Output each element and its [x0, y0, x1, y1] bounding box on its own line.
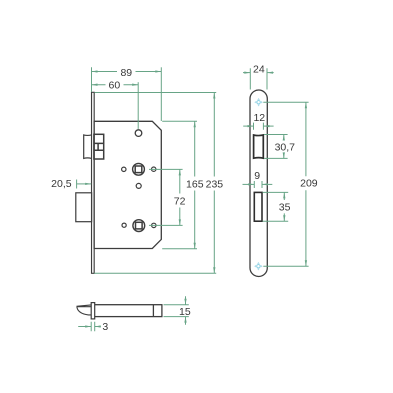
svg-text:3: 3: [102, 321, 108, 333]
dimension 235: line: [213, 93, 215, 274]
dimension 12: left line: [243, 125, 253, 127]
bottom latch bar: [94, 305, 162, 317]
deadbolt (thrown, left of faceplate): [76, 193, 92, 222]
dimension 24: right arrow: [267, 71, 273, 73]
dimension 15: upper arrow: [184, 299, 186, 305]
dimension 165: extension line top: [162, 120, 197, 122]
dimension 15: extension line bottom: [164, 316, 189, 318]
dimension 35: line segments: [283, 192, 285, 221]
spindle hub lower: square hole: [136, 222, 143, 229]
dimension 24: extension line left: [249, 68, 251, 89]
svg-text:9: 9: [254, 170, 260, 182]
dimension 12: right line: [263, 125, 273, 127]
dimension 3: left arrow: [85, 325, 91, 327]
svg-text:89: 89: [120, 67, 132, 79]
latch body inner lines: [94, 143, 104, 150]
strike plate (right view, stadium outline): [250, 90, 267, 277]
dimension 60: right arrow: [132, 84, 138, 86]
dimension 24: left line: [243, 72, 250, 74]
dimension 30,7: top arrow: [283, 135, 285, 141]
spindle hub lower: circle: [133, 220, 145, 232]
dimension 60: line: [92, 84, 139, 86]
lock case body: [94, 121, 161, 248]
dimension 3: right line: [95, 326, 101, 328]
dimension 9: right arrow: [262, 183, 268, 185]
dimension 20,5: arrow: [85, 183, 91, 185]
dimension 24: extension line right: [266, 68, 268, 89]
dimension 165: extension line bottom: [162, 248, 197, 250]
dimension 15: lower arrow: [184, 317, 186, 323]
dimension 9: left arrow: [248, 183, 254, 185]
dimension 3: left line: [78, 326, 91, 328]
dimension 30,7: bottom arrow: [283, 152, 285, 158]
bottom latch flange plate: [91, 303, 95, 319]
dimension 9: left line: [243, 183, 255, 185]
screw hole left of lower spindle: [122, 223, 126, 227]
svg-text:72: 72: [174, 195, 186, 207]
dimension 35: top arrow: [283, 192, 285, 198]
dimension 20,5: line: [77, 183, 92, 185]
dimension 24: left arrow: [244, 71, 250, 73]
dimension 30,7: line segments: [283, 135, 285, 159]
faceplate (left side view, edge-on): [92, 92, 95, 273]
deadbolt opening in plate: [254, 192, 262, 221]
dimension 72: extension line bottom: [149, 224, 183, 226]
dimension 3: right arrow: [95, 325, 101, 327]
svg-text:30,7: 30,7: [275, 141, 296, 153]
svg-text:60: 60: [109, 80, 121, 92]
spindle hub upper: circle: [133, 163, 145, 175]
screw symbol top: [254, 98, 263, 107]
dimension 89: line: [92, 71, 162, 73]
dimension 9: right line: [262, 183, 272, 185]
dimension 209: top arrow: [305, 102, 307, 108]
dimension 30,7: extension line top: [264, 134, 288, 136]
svg-text:15: 15: [179, 306, 191, 318]
dimension 12: extension ticks: [254, 123, 264, 130]
dimension 89: extension line right: [160, 67, 162, 121]
dimension 89: extension line left: [91, 67, 93, 92]
hole below upper spindle: [136, 183, 141, 188]
dimension 15: line segments: [185, 296, 187, 325]
dimension 165: line: [194, 121, 196, 248]
latch follower body (right of faceplate): [94, 134, 104, 159]
dimension 235: bottom arrow: [213, 267, 215, 273]
dimension 165: bottom arrow: [194, 243, 196, 249]
dimension 24: right line: [267, 72, 274, 74]
latch opening in plate: [254, 135, 264, 158]
screw hole right of lower spindle: [152, 223, 156, 227]
spindle hub upper: square hole: [135, 166, 142, 173]
dimension 165: top arrow: [194, 121, 196, 127]
svg-text:235: 235: [206, 179, 224, 191]
dimension 20,5: extension tick: [76, 180, 78, 189]
dimension 72: top arrow: [179, 169, 181, 175]
dimension 30,7: extension line bottom: [264, 157, 288, 159]
svg-text:209: 209: [300, 178, 318, 190]
dimension 15: extension line top: [164, 304, 189, 306]
dimension 60: left arrow: [92, 84, 98, 86]
dimension 72: extension line top: [149, 168, 183, 170]
dimension 72: line: [179, 169, 181, 225]
dimension 35: bottom arrow: [283, 215, 285, 221]
screw hole right of upper spindle: [152, 167, 156, 171]
dimension 60: extension line right (to top hole): [137, 82, 139, 129]
dimension 89: right arrow: [155, 70, 161, 72]
dimension 235: top arrow: [213, 93, 215, 99]
dimension 209: extension line top (from top screw): [263, 101, 308, 103]
dimension 89: left arrow: [92, 70, 98, 72]
svg-text:165: 165: [186, 179, 204, 191]
bottom latch bar end cap line: [152, 305, 154, 317]
bottom latch bevel tip: [77, 305, 91, 315]
svg-text:24: 24: [253, 63, 265, 75]
dimension 3: extension ticks: [91, 322, 95, 331]
svg-text:12: 12: [253, 112, 265, 124]
dimension 35: extension line top: [263, 191, 289, 193]
dimension 35: extension line bottom: [263, 220, 289, 222]
dimension 12: right arrow: [263, 125, 269, 127]
dimension 9: extension ticks: [254, 181, 262, 188]
dimension 235: extension line top (from faceplate top): [95, 92, 217, 94]
dimension 209: bottom arrow: [305, 260, 307, 266]
top hole: [135, 130, 142, 137]
dimension 235: extension line bottom (from faceplate bottom): [94, 272, 216, 274]
dimension 12: left arrow: [248, 125, 254, 127]
screw hole left of upper spindle: [122, 167, 126, 171]
screw symbol bottom: [254, 262, 263, 271]
dimension 209: extension line bottom (from bottom screw): [263, 265, 308, 267]
dimension 72: bottom arrow: [179, 219, 181, 225]
latch bolt head (left of faceplate): [84, 135, 92, 159]
dimension 209: line segments: [305, 102, 307, 266]
svg-text:20,5: 20,5: [51, 178, 72, 190]
svg-text:35: 35: [279, 202, 291, 214]
